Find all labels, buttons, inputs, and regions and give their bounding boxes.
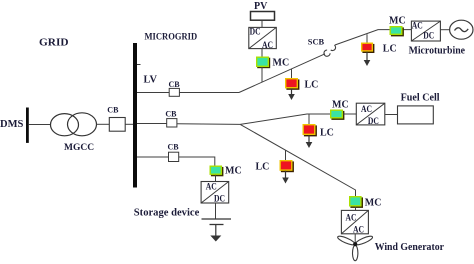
- wire junction to wind branch: [240, 124, 355, 196]
- svg-text:CB: CB: [107, 105, 119, 114]
- svg-text:DC: DC: [214, 193, 225, 203]
- converter DC/AC (PV): [249, 27, 276, 50]
- wire MC to converter (storage): [215, 175, 217, 182]
- wind generator rotor: [337, 235, 374, 261]
- svg-text:CB: CB: [168, 142, 180, 151]
- wire converter to MC (PV): [261, 49, 263, 57]
- svg-text:GRID: GRID: [39, 37, 69, 48]
- wire SCB diagonal upper: [335, 30, 412, 45]
- wire transformer to CB: [97, 123, 110, 125]
- svg-text:AC: AC: [353, 224, 364, 234]
- PV panel box: [251, 12, 275, 21]
- converter AC/AC (wind): [341, 210, 368, 234]
- wire feeder 1 to SCB line: [179, 92, 239, 94]
- svg-text:DC: DC: [423, 31, 434, 41]
- ground: [202, 219, 232, 242]
- wire feeder 3: [137, 156, 169, 158]
- svg-text:DC: DC: [368, 116, 379, 126]
- load controller LC c: [303, 124, 317, 136]
- svg-text:MC: MC: [332, 99, 349, 110]
- load controller LC b stub: [366, 34, 368, 42]
- controller MC (wind): [349, 196, 363, 208]
- load controller LC d: [280, 160, 294, 172]
- wire feeder 2 to junction: [177, 123, 240, 126]
- transformer MGCC: [51, 114, 79, 136]
- wire feeder 2: [137, 123, 167, 125]
- arrow LC a: [291, 88, 293, 95]
- wire PV to converter: [261, 20, 263, 27]
- svg-text:MGCC: MGCC: [64, 143, 94, 153]
- wire MC to converter (wind): [355, 207, 357, 211]
- arrow LC b: [366, 52, 368, 62]
- svg-text:PV: PV: [254, 1, 268, 12]
- svg-text:MICROGRID: MICROGRID: [145, 32, 198, 42]
- svg-text:Microturbine: Microturbine: [409, 46, 466, 57]
- load controller LC a stub: [291, 69, 293, 78]
- svg-text:DMS: DMS: [0, 119, 23, 130]
- fuel cell box: [398, 106, 434, 124]
- wire junction to fuel cell branch: [240, 114, 330, 124]
- svg-text:LV: LV: [144, 73, 158, 85]
- load controller LC a: [285, 78, 299, 90]
- load controller LC b: [361, 43, 374, 54]
- svg-text:Storage device: Storage device: [134, 208, 200, 219]
- wire converter to generator: [440, 29, 449, 31]
- wire SCB diagonal lower: [239, 54, 325, 93]
- converter AC/DC (storage): [201, 182, 229, 204]
- LV bus bar: [133, 43, 137, 188]
- svg-text:AC: AC: [262, 40, 273, 50]
- wire MC to converter (fuel cell): [343, 113, 356, 115]
- converter AC/DC (microturbine): [411, 20, 440, 41]
- arrow LC d: [285, 171, 287, 179]
- wire MC (PV) to SCB line: [261, 67, 263, 82]
- svg-text:SCB: SCB: [308, 38, 325, 47]
- svg-text:LC: LC: [305, 79, 319, 90]
- controller MC (storage): [210, 166, 224, 177]
- svg-text:LC: LC: [256, 162, 270, 173]
- converter AC/DC (fuel cell): [356, 103, 385, 126]
- svg-text:MC: MC: [389, 15, 406, 26]
- svg-text:Fuel Cell: Fuel Cell: [401, 93, 440, 104]
- svg-text:LC: LC: [320, 128, 334, 139]
- svg-text:AC: AC: [206, 182, 217, 192]
- svg-text:LC: LC: [383, 43, 397, 54]
- load controller LC c stub: [308, 114, 310, 124]
- svg-text:AC: AC: [412, 20, 423, 30]
- wire feeder 1: [137, 92, 169, 94]
- controller MC (PV): [256, 57, 270, 69]
- svg-text:AC: AC: [346, 213, 357, 223]
- svg-text:AC: AC: [361, 104, 372, 114]
- svg-text:MC: MC: [225, 165, 242, 176]
- DMS bus bar: [26, 108, 29, 143]
- load controller LC d stub: [285, 150, 287, 160]
- svg-text:CB: CB: [165, 110, 177, 119]
- generator (microturbine): [450, 20, 473, 39]
- wire CB to bus: [125, 123, 133, 125]
- svg-text:MC: MC: [365, 198, 382, 209]
- wire converter to fuel cell: [385, 114, 398, 116]
- wire converter to wind generator: [354, 234, 356, 243]
- wire DMS to transformer: [29, 124, 51, 126]
- wire converter to ground: [215, 203, 217, 219]
- svg-text:DC: DC: [250, 27, 261, 37]
- svg-text:Wind Generator: Wind Generator: [375, 242, 445, 253]
- svg-text:CB: CB: [169, 80, 181, 89]
- wire feeder 3 to storage: [179, 157, 215, 166]
- wire bus tick: [137, 64, 141, 66]
- svg-text:MC: MC: [273, 57, 290, 68]
- arrow LC c: [308, 135, 310, 144]
